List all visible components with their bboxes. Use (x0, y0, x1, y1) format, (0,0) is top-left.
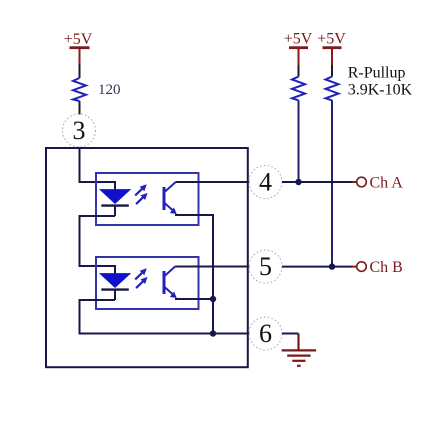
LED D2 (100, 274, 130, 288)
wire +5V to resistor R2 (298, 65, 300, 77)
power symbol +5V (left, V1) (64, 31, 93, 64)
wire emitter junction to common (212, 299, 214, 334)
node ChB junction (329, 263, 335, 269)
light arrow 2 of U1 (136, 193, 148, 204)
svg-text:3.9K-10K: 3.9K-10K (348, 82, 413, 99)
LED D1 anode lead (114, 181, 116, 190)
junction common (210, 330, 216, 336)
power symbol +5V (pullup A, V2) (284, 31, 313, 66)
wire pin3 to LED D1 anode (80, 147, 116, 182)
LED D1 cathode bar (101, 204, 129, 206)
wire Q2 emitter to emitter junction (175, 298, 213, 300)
phototransistor Q1 (164, 182, 177, 214)
resistor R2 pullup A (292, 77, 305, 101)
optocoupler U2 body (96, 257, 199, 309)
svg-text:Ch A: Ch A (370, 175, 404, 192)
svg-text:4: 4 (259, 168, 272, 197)
light arrow 2 of U2 (136, 277, 148, 288)
wire from resistor R1 to pin 3 (79, 101, 81, 115)
node ChA junction (295, 179, 301, 185)
svg-text:6: 6 (259, 319, 272, 348)
wire pin 4 to Ch A (282, 181, 352, 183)
Ch B terminal stub (352, 266, 357, 268)
LED D2 anode lead (114, 265, 116, 274)
phototransistor Q2 (164, 266, 177, 298)
svg-text:+5V: +5V (317, 31, 346, 48)
svg-text:+5V: +5V (64, 31, 93, 48)
svg-text:5: 5 (259, 252, 272, 281)
wire D2 cathode to pin 6 common (80, 300, 250, 334)
LED D1 cathode lead (114, 206, 116, 216)
wire Q1 collector to pin 4 (175, 181, 249, 183)
wire D1 cathode to D2 anode (80, 216, 116, 266)
svg-text:3: 3 (73, 116, 86, 145)
Ch A terminal stub (352, 181, 357, 183)
wire +5V to resistor R3 (331, 65, 333, 77)
resistor R1 120 (73, 78, 86, 101)
LED D1 (100, 190, 130, 204)
power symbol +5V (pullup B, V3) (317, 31, 346, 66)
Ch A terminal (357, 177, 367, 187)
Ch B terminal (357, 262, 367, 272)
encoder module box (46, 148, 248, 367)
pin 5 (249, 250, 282, 283)
wire Q2 collector to pin 5 (175, 266, 249, 268)
pin 6 (249, 317, 282, 350)
light arrow 1 of U1 (135, 184, 147, 195)
light arrow 1 of U2 (135, 268, 147, 279)
junction emitters (210, 296, 216, 302)
ground (282, 334, 316, 366)
wire pin 5 to Ch B (282, 266, 352, 268)
svg-text:Ch B: Ch B (370, 259, 403, 276)
LED D2 cathode lead (114, 290, 116, 300)
wire pin 6 to ground (282, 333, 299, 335)
svg-text:R-Pullup: R-Pullup (348, 65, 406, 82)
pin 3 (63, 114, 96, 147)
svg-text:+5V: +5V (284, 31, 313, 48)
wire from +5V to resistor R1 (79, 64, 81, 78)
svg-text:120: 120 (98, 82, 121, 98)
LED D2 cathode bar (101, 288, 129, 290)
wire resistor R2 to ChA node (298, 100, 300, 182)
optocoupler U1 body (96, 173, 199, 225)
wire resistor R3 to ChB node (331, 100, 333, 266)
label R-Pullup value (348, 65, 413, 99)
resistor R3 pullup B (326, 77, 339, 101)
pin 4 (249, 166, 282, 199)
wire Q1 emitter down (175, 215, 213, 299)
